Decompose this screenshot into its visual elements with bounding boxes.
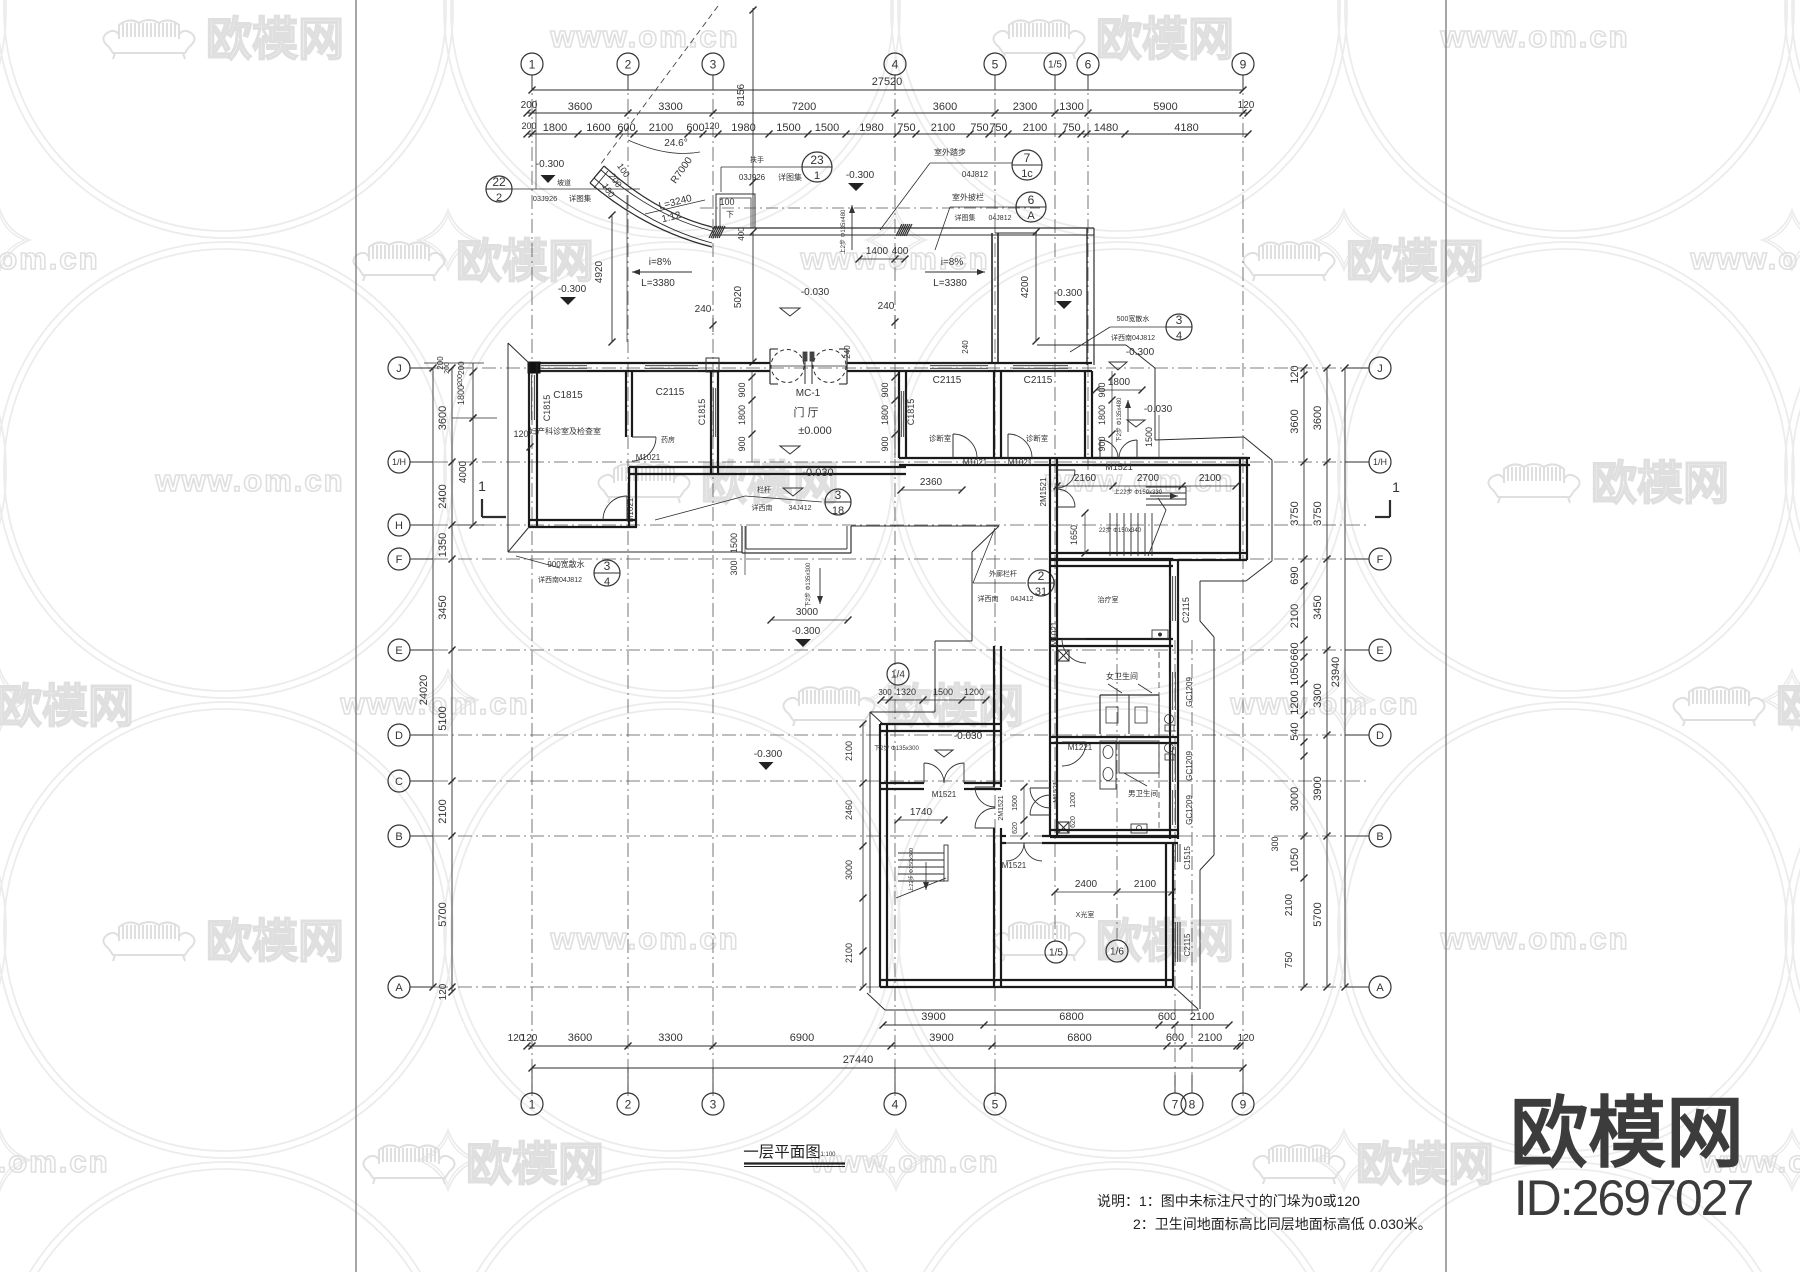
grid bubble 3 bottom: [702, 1093, 724, 1115]
svg-text:240: 240: [695, 304, 712, 315]
bottom wing eave top connector: [870, 712, 883, 724]
top minor dimension chain: [527, 133, 1248, 135]
svg-text:5700: 5700: [437, 902, 449, 926]
vertical grid line 1/5: [1054, 75, 1056, 941]
svg-text:9: 9: [1240, 57, 1247, 71]
svg-text:下2步 Φ135x300: 下2步 Φ135x300: [874, 744, 919, 752]
detail callout 3/4 right: [1166, 314, 1192, 340]
stair block top wall: [1092, 457, 1247, 459]
svg-text:详图集: 详图集: [569, 193, 592, 203]
svg-text:J: J: [396, 363, 402, 375]
svg-text:4: 4: [604, 576, 610, 588]
svg-text:7: 7: [1024, 151, 1031, 165]
railing detail callout 3/18: [825, 489, 851, 515]
window GC1209 upper: [1169, 672, 1171, 710]
svg-text:1/5: 1/5: [1049, 948, 1063, 959]
svg-text:22: 22: [492, 175, 506, 189]
svg-text:-0.030: -0.030: [802, 467, 833, 479]
stair block top eave: [1155, 437, 1244, 440]
svg-text:3: 3: [604, 559, 611, 573]
stair hall dims 2160 2700 2100: [1057, 485, 1236, 487]
svg-text:M1021: M1021: [626, 497, 635, 522]
vertical grid line 9: [1242, 75, 1244, 1096]
dim 4200 vertical: [1035, 232, 1037, 341]
svg-text:1400: 1400: [866, 246, 889, 257]
walkway deck right portion: [898, 227, 1094, 229]
svg-text:-0.030: -0.030: [954, 731, 983, 742]
left wing bottom wall: [529, 519, 637, 521]
svg-text:200: 200: [521, 121, 536, 131]
stair run upper flight: [1146, 486, 1186, 488]
svg-text:欧模网: 欧模网: [466, 1138, 604, 1190]
svg-text:男卫生间: 男卫生间: [1128, 788, 1158, 798]
svg-text:www.om.cn: www.om.cn: [809, 1144, 999, 1179]
svg-text:400: 400: [737, 227, 746, 241]
svg-text:1350: 1350: [437, 533, 449, 557]
svg-text:3300: 3300: [658, 1032, 682, 1044]
svg-text:4200: 4200: [1020, 275, 1031, 298]
vertical grid line 1/6: [1116, 640, 1118, 940]
door M1521 stair hall: [1099, 440, 1101, 458]
svg-text:C1815: C1815: [553, 390, 583, 401]
svg-text:2460: 2460: [844, 800, 854, 820]
svg-text:3750: 3750: [1312, 501, 1324, 525]
svg-text:www.om.cn: www.om.cn: [1229, 686, 1419, 721]
svg-text:120: 120: [438, 983, 449, 1000]
svg-text:2: 2: [496, 192, 502, 204]
big room bottom wall: [880, 979, 1173, 981]
svg-text:3: 3: [710, 57, 717, 71]
svg-text:欧模网: 欧模网: [206, 915, 344, 967]
eave outline right wing east: [1244, 437, 1272, 460]
window C2115 top wall room3: [930, 362, 988, 364]
horizontal grid line C: [410, 780, 1369, 782]
svg-text:18: 18: [832, 505, 844, 517]
svg-text:31: 31: [1035, 586, 1047, 598]
svg-text:2100: 2100: [1198, 1032, 1222, 1044]
svg-text:300: 300: [1270, 836, 1280, 851]
vertical grid line 2: [627, 75, 629, 1096]
svg-text:-0.030: -0.030: [801, 287, 830, 298]
svg-text:上2步 Φ135x480: 上2步 Φ135x480: [839, 209, 847, 254]
svg-text:www.om.cn: www.om.cn: [549, 921, 739, 956]
svg-text:200: 200: [457, 374, 464, 386]
bottom stair cut line: [896, 878, 946, 898]
male wc fixtures: [1100, 741, 1116, 789]
grid bubble D left: [388, 724, 410, 746]
toilet block east wall: [1169, 646, 1171, 839]
svg-text:900: 900: [880, 436, 890, 451]
svg-text:1600: 1600: [586, 122, 610, 134]
svg-text:2300: 2300: [1013, 101, 1037, 113]
ramp arc dimension 24.6deg: [628, 140, 700, 154]
sheet frame left border: [355, 0, 357, 1272]
bottom wing eave bottom: [867, 993, 885, 1010]
svg-text:2: 2: [1038, 569, 1045, 583]
svg-text:5100: 5100: [437, 706, 449, 730]
svg-text:欧模网: 欧模网: [1776, 680, 1800, 732]
svg-text:1500: 1500: [729, 533, 739, 553]
svg-text:600: 600: [1166, 1032, 1184, 1044]
svg-text:B: B: [1376, 831, 1383, 843]
svg-text:C2115: C2115: [656, 387, 685, 398]
partition wall hall - room3: [898, 371, 900, 458]
grid bubble 9 top: [1232, 53, 1254, 75]
horizontal grid line 1H: [410, 461, 1369, 463]
svg-text:3900: 3900: [1312, 776, 1324, 800]
svg-text:MC-1: MC-1: [796, 388, 821, 399]
svg-text:M1521: M1521: [1053, 781, 1060, 803]
svg-text:C2115: C2115: [1183, 933, 1192, 957]
big room dims 2400 2100: [1055, 891, 1172, 893]
svg-text:1/6: 1/6: [1110, 947, 1124, 958]
svg-text:详西南: 详西南: [978, 594, 999, 603]
grid bubble 7 bottom: [1164, 1093, 1186, 1115]
svg-text:2: 2: [625, 57, 632, 71]
svg-text:妇产科诊室及检查室: 妇产科诊室及检查室: [529, 426, 601, 436]
svg-text:2400: 2400: [437, 484, 449, 508]
svg-text:4920: 4920: [594, 260, 605, 283]
stair run lower flight: [1109, 513, 1111, 556]
svg-text:www.om.cn: www.om.cn: [1439, 921, 1629, 956]
svg-text:室外披栏: 室外披栏: [952, 192, 984, 202]
grid bubble 6 top: [1077, 53, 1099, 75]
svg-text:3450: 3450: [437, 595, 449, 619]
terrace line between porch and right wing: [851, 525, 999, 527]
door M1221: [1062, 741, 1086, 743]
vertical grid line 8: [1191, 640, 1193, 1096]
svg-text:B: B: [395, 831, 402, 843]
grid bubble 1 bottom: [521, 1093, 543, 1115]
right porch east wall: [1086, 228, 1088, 365]
top major dimension chain: [527, 112, 1248, 114]
svg-text:±0.000: ±0.000: [798, 425, 832, 437]
svg-text:2：卫生间地面标高比同层地面标高低 0.030米。: 2：卫生间地面标高比同层地面标高低 0.030米。: [1133, 1216, 1432, 1232]
svg-text:H: H: [395, 520, 403, 532]
svg-text:900: 900: [880, 382, 890, 397]
right porch west wall: [991, 233, 993, 363]
svg-text:900宽散水: 900宽散水: [547, 559, 584, 569]
grid bubble stems left: [410, 367, 433, 369]
svg-text:1500: 1500: [933, 687, 953, 697]
bottom stairs: [898, 852, 944, 854]
svg-text:660: 660: [1289, 642, 1301, 660]
sink in treatment room: [1152, 630, 1168, 639]
svg-text:3300: 3300: [1312, 683, 1324, 707]
svg-text:750: 750: [970, 122, 988, 134]
svg-text:J: J: [1377, 363, 1383, 375]
svg-text:120: 120: [704, 121, 719, 131]
svg-text:2360: 2360: [920, 477, 943, 488]
svg-text:i=8%: i=8%: [649, 257, 672, 268]
svg-text:欧模网: 欧模网: [1591, 457, 1729, 509]
svg-text:www.om.cn: www.om.cn: [0, 241, 100, 276]
horizontal grid line H: [410, 524, 1369, 526]
grid bubble 3 top: [702, 53, 724, 75]
right wing west eave: [972, 526, 999, 552]
left overall dimension 24020: [432, 368, 434, 987]
svg-text:6800: 6800: [1067, 1032, 1091, 1044]
corridor south wall east segment: [899, 457, 1250, 459]
door 2M1521: [1057, 469, 1075, 471]
svg-text:1c: 1c: [1021, 168, 1033, 180]
svg-text:1200: 1200: [1289, 690, 1301, 714]
grid bubble 1/H left: [388, 451, 410, 473]
svg-text:M1521: M1521: [1002, 861, 1027, 870]
grid bubble F right: [1369, 548, 1391, 570]
treatment room east wall: [1169, 559, 1171, 646]
svg-text:2100: 2100: [1023, 122, 1047, 134]
grid bubble A right: [1369, 976, 1391, 998]
svg-text:6: 6: [1028, 193, 1035, 207]
svg-text:下2步 Φ135x480: 下2步 Φ135x480: [1115, 397, 1123, 442]
svg-text:23: 23: [810, 153, 824, 167]
ramp slope dashed construction line: [600, 6, 718, 165]
svg-text:620: 620: [1070, 816, 1077, 828]
svg-text:4000: 4000: [458, 460, 469, 483]
svg-text:说明：1：图中未标注尺寸的门垛为0或120: 说明：1：图中未标注尺寸的门垛为0或120: [1097, 1193, 1360, 1209]
svg-text:7200: 7200: [792, 101, 816, 113]
svg-text:1500: 1500: [1012, 795, 1019, 811]
pier at grid 3: [706, 358, 719, 372]
grid bubble D right: [1369, 724, 1391, 746]
svg-text:4: 4: [892, 1097, 899, 1111]
svg-text:8156: 8156: [736, 83, 747, 106]
svg-text:27520: 27520: [872, 76, 903, 88]
svg-text:-0.300: -0.300: [846, 170, 875, 181]
window C1815 top wall: [541, 362, 587, 364]
grid bubble H left: [388, 514, 410, 536]
svg-text:7: 7: [1172, 1097, 1179, 1111]
corridor dims 1500 620: [1023, 787, 1025, 836]
svg-text:1800: 1800: [1108, 377, 1131, 388]
horizontal grid line E: [410, 649, 1369, 651]
bottom wing west wall: [879, 724, 881, 987]
svg-text:C1815: C1815: [906, 399, 916, 426]
svg-text:1650: 1650: [1069, 525, 1079, 545]
svg-text:24.6°: 24.6°: [664, 138, 687, 149]
svg-text:1800: 1800: [880, 405, 890, 425]
bottom stair dim 1740: [898, 819, 944, 821]
dim 4920 vertical: [611, 215, 613, 342]
horizontal grid line F: [410, 558, 1369, 560]
svg-text:1800: 1800: [1097, 405, 1107, 425]
svg-text:下: 下: [726, 210, 734, 219]
vertical grid line 6: [1087, 75, 1089, 470]
svg-text:1800: 1800: [456, 385, 466, 405]
dim 1400 400: [859, 258, 905, 260]
dim 2360 corridor: [901, 489, 962, 491]
svg-text:750: 750: [1062, 122, 1080, 134]
svg-text:1480: 1480: [1094, 122, 1118, 134]
svg-text:300: 300: [729, 560, 739, 575]
svg-text:-0.300: -0.300: [754, 749, 783, 760]
svg-text:C1515: C1515: [1183, 846, 1192, 870]
grid bubble 1/5 top: [1044, 53, 1066, 75]
svg-text:3600: 3600: [1312, 406, 1324, 430]
svg-text:1/H: 1/H: [1373, 457, 1387, 467]
svg-text:04J812: 04J812: [989, 215, 1012, 222]
right major dimension chain: [1326, 368, 1328, 987]
svg-text:200: 200: [444, 362, 451, 374]
wc pans female: [1165, 715, 1174, 724]
svg-text:900: 900: [737, 382, 747, 397]
svg-text:C1815: C1815: [697, 399, 707, 426]
svg-text:外廊栏杆: 外廊栏杆: [989, 569, 1017, 578]
door M1521 toilets west wall: [1030, 788, 1050, 808]
svg-text:欧模网: 欧模网: [456, 235, 594, 287]
svg-text:上22步 Φ150x330: 上22步 Φ150x330: [1114, 488, 1163, 496]
bottom stair rail: [944, 845, 948, 881]
bottom wing west eave: [869, 712, 871, 993]
grid bubble 8 bottom: [1181, 1093, 1203, 1115]
svg-text:1050: 1050: [1289, 848, 1301, 872]
svg-text:C2115: C2115: [1024, 375, 1053, 386]
svg-text:600: 600: [686, 122, 704, 134]
bottom major dimension chain: [527, 1045, 1240, 1047]
grid bubble C left: [388, 770, 410, 792]
svg-text:750: 750: [897, 122, 915, 134]
svg-text:2700: 2700: [1137, 473, 1160, 484]
dims 300 1320 1500 1200 at 1/4: [881, 699, 986, 701]
svg-text:1: 1: [1392, 479, 1400, 495]
svg-text:C2115: C2115: [933, 375, 962, 386]
svg-text:www.om.cn: www.om.cn: [1439, 19, 1629, 54]
svg-text:3: 3: [835, 488, 842, 502]
svg-text:3900: 3900: [929, 1032, 953, 1044]
svg-text:ID:2697027: ID:2697027: [1514, 1170, 1753, 1226]
svg-text:04J812: 04J812: [962, 170, 989, 179]
treatment room west wall: [1049, 559, 1051, 646]
window GC1209 lower: [1169, 790, 1171, 825]
bottom wing corner mitre: [1173, 986, 1198, 1009]
svg-text:120: 120: [513, 429, 528, 439]
svg-text:栏杆: 栏杆: [757, 485, 771, 494]
stair dim 1650: [1084, 513, 1086, 553]
svg-text:2100: 2100: [931, 122, 955, 134]
svg-text:诊断室: 诊断室: [1026, 433, 1049, 443]
left wing step wall: [628, 467, 630, 527]
partition wall rooms 1-2: [625, 371, 627, 437]
svg-text:M1521: M1521: [1105, 462, 1133, 472]
eave detail callout 3/4 left: [594, 560, 620, 586]
door M1021 room2: [632, 436, 656, 438]
left exterior wall: [528, 363, 530, 527]
svg-text:-0.300: -0.300: [792, 626, 821, 637]
svg-text:M1521: M1521: [932, 790, 957, 799]
window GC1209 middle: [1169, 747, 1171, 782]
ventilation dashed line toilets: [1158, 652, 1160, 828]
grid bubble 4 top: [884, 53, 906, 75]
terrace edge line: [508, 551, 742, 553]
svg-text:9: 9: [1240, 1097, 1247, 1111]
svg-text:23940: 23940: [1330, 657, 1342, 688]
svg-text:D: D: [395, 730, 403, 742]
svg-text:3600: 3600: [437, 406, 449, 430]
svg-text:GC1209: GC1209: [1185, 795, 1194, 825]
svg-text:女卫生间: 女卫生间: [1106, 671, 1138, 681]
stair arrow: [1150, 495, 1178, 497]
window C2115 top wall room2: [645, 362, 698, 364]
svg-text:上22步 Φ150x300: 上22步 Φ150x300: [907, 848, 915, 892]
svg-text:1: 1: [529, 1097, 536, 1111]
shaft box upper: [1058, 650, 1069, 661]
svg-text:A: A: [1376, 982, 1384, 994]
right porch top edge: [995, 232, 1037, 234]
svg-text:欧模网: 欧模网: [701, 457, 839, 509]
railing detail callout 2/31: [1028, 570, 1054, 596]
svg-text:www.om.cn: www.om.cn: [549, 19, 739, 54]
svg-text:03J926: 03J926: [533, 194, 558, 203]
toilet fixture bottom: [1131, 824, 1147, 833]
vertical grid line 3: [712, 75, 714, 1096]
top block: top exterior wall: [529, 362, 770, 364]
grid bubble 5 top: [984, 53, 1006, 75]
grid bubble 5 bottom: [984, 1093, 1006, 1115]
dim 1800 stair hall: [1096, 389, 1142, 391]
svg-text:C2115: C2115: [1181, 597, 1191, 623]
svg-text:120: 120: [1238, 100, 1255, 111]
window C1815 hall east wall: [898, 391, 900, 437]
svg-text:M1021: M1021: [963, 458, 988, 467]
svg-text:750: 750: [989, 122, 1007, 134]
svg-text:120: 120: [521, 1033, 538, 1044]
svg-text:C1815: C1815: [542, 395, 552, 422]
left eave outline: [507, 343, 509, 552]
grid bubble 1 top: [521, 53, 543, 75]
svg-text:L=3380: L=3380: [933, 278, 967, 289]
svg-text:M1021: M1021: [1050, 621, 1059, 646]
canopy centerline: [700, 207, 1040, 209]
svg-text:2M1521: 2M1521: [1039, 477, 1048, 506]
svg-text:2100: 2100: [649, 122, 673, 134]
svg-text:详图集: 详图集: [778, 172, 802, 182]
svg-text:27440: 27440: [843, 1054, 874, 1066]
svg-text:详西南04J812: 详西南04J812: [1111, 333, 1155, 342]
stair block west wall: [1049, 458, 1051, 560]
svg-text:6900: 6900: [790, 1032, 814, 1044]
grid bubble B right: [1369, 825, 1391, 847]
grid bubble F left: [388, 548, 410, 570]
detail callout 7/1c with leader: [1012, 150, 1042, 180]
svg-text:www.om.cn: www.om.cn: [1689, 241, 1800, 276]
vertical grid line 7: [1174, 640, 1176, 1096]
svg-text:A: A: [395, 982, 403, 994]
svg-text:详西南: 详西南: [752, 503, 773, 512]
svg-text:1300: 1300: [1059, 101, 1083, 113]
svg-text:-0.300: -0.300: [558, 284, 587, 295]
watermark background stars: [0, 210, 1800, 1190]
svg-text:1980: 1980: [859, 122, 883, 134]
top eave segment right of block: [1037, 344, 1126, 346]
svg-text:3: 3: [1176, 313, 1183, 327]
svg-text:3000: 3000: [796, 607, 819, 618]
door M1021 room4 arc: [1007, 434, 1009, 458]
grid bubble J right: [1369, 357, 1391, 379]
sheet frame right border: [1445, 0, 1447, 1272]
svg-text:2100: 2100: [1134, 879, 1157, 890]
ramp detail callout 22/2: [486, 176, 512, 202]
svg-text:1: 1: [529, 57, 536, 71]
partition wall rooms 3-4: [993, 371, 995, 458]
svg-text:1500: 1500: [1144, 427, 1154, 447]
grid bubble 1/H right: [1369, 451, 1391, 473]
horizontal grid line J: [410, 367, 1369, 369]
canopy step rectangle: [716, 194, 755, 228]
treatment room top wall: [1050, 558, 1173, 560]
grid bubble E left: [388, 639, 410, 661]
horizontal grid line B: [410, 835, 1369, 837]
